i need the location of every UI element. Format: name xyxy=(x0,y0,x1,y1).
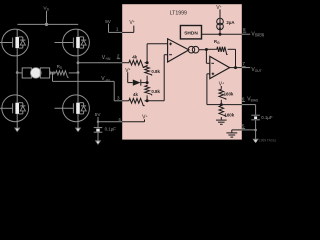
wire top rail xyxy=(17,23,78,25)
svg-text:4: 4 xyxy=(118,117,121,122)
transistor Q2 top-right NMOS xyxy=(63,29,90,56)
wire A2+ to bias node xyxy=(207,73,210,75)
wire node to pin4 xyxy=(98,121,123,123)
capacitor C2 0.1uF xyxy=(255,105,257,115)
connector marks xyxy=(49,71,52,75)
wire pin8 node to edge xyxy=(219,30,221,35)
resistor 160k lower xyxy=(219,105,226,117)
resistor RS xyxy=(55,71,69,78)
ground Q4 source xyxy=(77,122,79,128)
diode D1 clamp xyxy=(133,80,141,86)
resistor 0.8k upper xyxy=(145,65,152,76)
capacitor C1 0.1uF xyxy=(94,127,103,129)
wire -IN to pin3 xyxy=(113,81,115,100)
svg-text:2: 2 xyxy=(117,54,120,59)
wire bridge-left to motor xyxy=(17,72,22,74)
wire right bridge vertical xyxy=(77,56,79,95)
resistor 160k upper xyxy=(219,88,226,100)
wire pin5 to ground xyxy=(232,129,242,131)
wire +IN to pin2 xyxy=(78,62,123,64)
wire 0.8k to node B xyxy=(146,95,148,101)
op-amp A1 xyxy=(168,39,189,62)
wire A2 out xyxy=(230,67,242,69)
svg-text:5V: 5V xyxy=(105,19,112,24)
svg-text:4k: 4k xyxy=(133,92,138,97)
wire pin6 external xyxy=(242,104,256,106)
resistor 0.8k lower xyxy=(145,85,152,96)
junction bias node xyxy=(220,103,223,106)
resistor 4k upper xyxy=(122,62,127,64)
wire node B to amp- xyxy=(147,100,164,102)
wire 0.8k to diode node xyxy=(146,76,148,83)
IC block LT1999 shaded region xyxy=(122,4,242,139)
wire bias node to pin6 xyxy=(221,104,242,106)
svg-text:1999 TA01a: 1999 TA01a xyxy=(259,138,276,142)
wire -IN horizontal xyxy=(53,80,115,82)
svg-text:SHDN: SHDN xyxy=(184,30,198,36)
svg-text:5: 5 xyxy=(242,123,245,128)
svg-text:5V: 5V xyxy=(95,112,102,117)
junction gm node xyxy=(205,48,208,51)
svg-text:160k: 160k xyxy=(224,113,234,118)
wire left bridge vertical xyxy=(16,56,18,95)
op-amp A2 xyxy=(210,56,230,78)
junction diode node xyxy=(146,81,149,84)
junction pin5 cap xyxy=(254,129,257,132)
ground internal divider xyxy=(216,119,227,121)
ground C1 xyxy=(97,133,99,141)
junction RS-left tap xyxy=(51,72,53,74)
wire pin4 to V+ internal xyxy=(122,121,144,123)
current source I1 2uA xyxy=(217,18,224,25)
junction node B xyxy=(146,99,149,102)
svg-text:4k: 4k xyxy=(132,54,137,59)
wire pin8 external xyxy=(242,33,250,35)
wire SHDN to pin8 node xyxy=(202,33,221,35)
wire V+ to diode xyxy=(127,72,129,82)
motor terminal box left xyxy=(22,68,31,78)
gm stage circles xyxy=(188,46,195,53)
junction right bridge +IN tap xyxy=(77,61,80,64)
block SHDN xyxy=(180,26,201,39)
wire node A to amp+ xyxy=(146,44,148,63)
motor M (circle) xyxy=(31,68,42,79)
svg-text:160k: 160k xyxy=(224,92,234,97)
ground external right xyxy=(255,130,257,139)
wire -IN down xyxy=(52,73,54,82)
wire 5V to pin4 node xyxy=(97,117,99,127)
svg-text:2µA: 2µA xyxy=(226,20,235,25)
wire gm out xyxy=(199,49,207,51)
junction out node xyxy=(234,66,237,69)
svg-text:7: 7 xyxy=(242,61,245,66)
motor terminal box right xyxy=(40,68,49,78)
wire VS stub xyxy=(46,11,48,25)
junction node A xyxy=(146,61,149,64)
wire 5V to pin1 xyxy=(108,24,110,33)
wire V+ to 160k xyxy=(220,86,222,88)
resistor 4k lower xyxy=(122,100,127,102)
wire V+ to current source xyxy=(219,9,221,18)
wire pin5 external xyxy=(242,129,256,131)
junction VS rail xyxy=(45,23,48,26)
wire RS to bridge-right xyxy=(69,72,78,74)
ground internal pin5 xyxy=(226,132,237,134)
wire pin7 external xyxy=(242,67,250,69)
svg-text:0.8k: 0.8k xyxy=(151,69,160,74)
wire box to RS xyxy=(50,72,55,74)
svg-text:LT1999: LT1999 xyxy=(170,10,187,16)
wire pin1 to V+ internal xyxy=(122,31,134,33)
svg-text:1: 1 xyxy=(116,27,119,32)
junction left bridge midpoint xyxy=(16,71,19,74)
resistor RG xyxy=(206,48,216,50)
svg-text:6: 6 xyxy=(242,96,245,101)
junction pin8 node xyxy=(219,33,222,36)
svg-text:8: 8 xyxy=(243,27,246,32)
svg-text:0.1µF: 0.1µF xyxy=(261,115,273,120)
svg-text:3: 3 xyxy=(117,95,120,100)
svg-text:0.1µF: 0.1µF xyxy=(105,127,117,132)
transistor Q1 top-left NMOS xyxy=(2,29,29,56)
ground Q3 source xyxy=(16,122,18,128)
transistor Q4 bottom-right NMOS xyxy=(63,95,90,122)
junction pin4 node xyxy=(97,121,99,123)
svg-text:0.8k: 0.8k xyxy=(151,89,160,94)
transistor Q3 bottom-left NMOS xyxy=(2,95,29,122)
junction right bridge RS xyxy=(77,71,80,74)
wire gm node to A2- xyxy=(205,50,207,64)
wire RG to out node xyxy=(235,49,237,67)
